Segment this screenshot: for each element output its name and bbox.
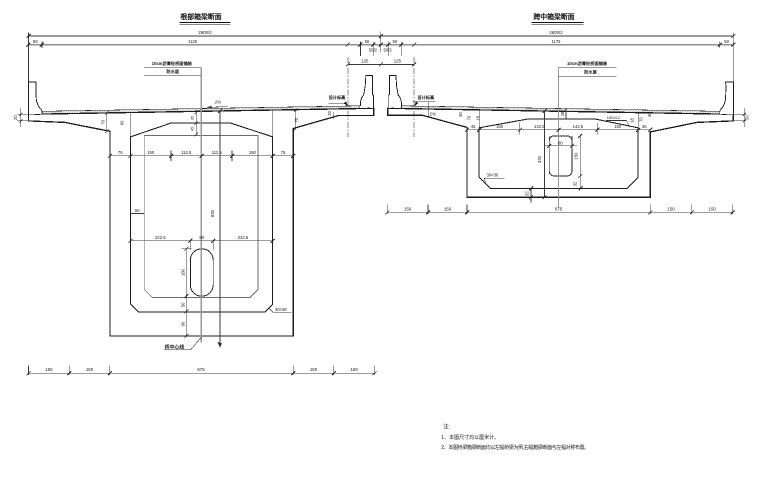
svg-text:80: 80 xyxy=(199,235,204,240)
total height dim 830 xyxy=(219,111,221,348)
dim texts top row xyxy=(33,30,730,63)
inner barrier of right deck xyxy=(388,75,401,108)
svg-text:125: 125 xyxy=(361,59,369,64)
svg-text:2600/2: 2600/2 xyxy=(549,30,563,35)
svg-text:2600/2: 2600/2 xyxy=(198,30,212,35)
svg-text:150: 150 xyxy=(310,367,318,372)
svg-text:35: 35 xyxy=(191,116,195,120)
edge slab dim 20 right xyxy=(733,108,746,127)
web dim line 75/150/112.5 xyxy=(110,151,293,162)
svg-text:75: 75 xyxy=(281,150,286,155)
bridge centerline (grey) xyxy=(200,68,202,343)
bottom dim line 150/150/675/150/150 xyxy=(387,205,732,215)
svg-text:45: 45 xyxy=(642,124,647,129)
svg-text:10cm沥青砼桥面铺装: 10cm沥青砼桥面铺装 xyxy=(152,60,193,67)
pavement layer label 10cm xyxy=(567,60,608,76)
vertical dim chain 180/50/90 xyxy=(181,249,191,336)
median dash-dot centerline left xyxy=(347,57,349,137)
svg-text:125: 125 xyxy=(394,59,402,64)
svg-text:注:: 注: xyxy=(443,423,450,431)
svg-text:150/4.2: 150/4.2 xyxy=(607,115,621,120)
inner web face extension lines xyxy=(129,113,131,137)
svg-text:设计标高: 设计标高 xyxy=(417,94,434,101)
svg-text:防水层: 防水层 xyxy=(584,69,597,76)
50 web taper dim xyxy=(130,213,144,215)
extension line right end xyxy=(732,33,734,83)
right outer barrier xyxy=(720,82,734,114)
svg-text:150: 150 xyxy=(496,124,504,129)
svg-text:60: 60 xyxy=(119,120,124,125)
svg-text:150: 150 xyxy=(667,206,675,211)
svg-text:30: 30 xyxy=(458,112,463,117)
svg-text:142.5: 142.5 xyxy=(573,124,584,129)
svg-text:50: 50 xyxy=(33,39,38,44)
svg-text:150: 150 xyxy=(614,124,622,129)
girder outer outline xyxy=(29,108,374,336)
edge slab dim 20 xyxy=(17,108,29,127)
svg-text:10cm沥青砼桥面铺装: 10cm沥青砼桥面铺装 xyxy=(567,60,608,67)
floor slab dim 32 xyxy=(530,188,532,202)
inner barrier of left deck xyxy=(360,75,373,108)
bottom dim line 150/150/675/150/150 xyxy=(29,366,375,376)
svg-text:675: 675 xyxy=(555,206,563,211)
extension line left end xyxy=(28,33,30,83)
svg-text:150: 150 xyxy=(351,367,359,372)
svg-text:45: 45 xyxy=(191,127,195,131)
mid dim 222.5/80/222.5 xyxy=(130,241,272,250)
svg-text:1175: 1175 xyxy=(551,39,561,44)
svg-text:150: 150 xyxy=(86,367,94,372)
svg-text:18: 18 xyxy=(475,115,480,120)
svg-text:30×30: 30×30 xyxy=(275,307,287,312)
small slab dim at centerline 28 xyxy=(565,108,567,119)
svg-text:75: 75 xyxy=(118,150,123,155)
access hole xyxy=(549,136,572,176)
hole width dim 80 xyxy=(544,136,577,150)
svg-text:防水层: 防水层 xyxy=(167,68,180,75)
svg-text:150: 150 xyxy=(444,206,452,211)
inner web face extension lines xyxy=(478,110,480,128)
bridge centerline (grey) xyxy=(558,68,560,208)
pavement hatch band xyxy=(402,106,720,114)
svg-text:150: 150 xyxy=(147,150,155,155)
hole height dim 150 xyxy=(579,136,581,176)
hole to floor dim 32 xyxy=(579,176,581,188)
web dim line 45/150/142.5 xyxy=(467,123,650,135)
top slab small dims at centerline xyxy=(195,113,197,135)
svg-text:90: 90 xyxy=(181,321,186,326)
svg-text:70: 70 xyxy=(467,115,472,120)
box inner contour B (taper line) xyxy=(144,136,258,298)
svg-text:30: 30 xyxy=(647,112,652,117)
dim line 50/1125/50 row (grey heavy) xyxy=(29,44,734,46)
svg-text:112.5: 112.5 xyxy=(181,150,192,155)
box inner contour A (pier face) xyxy=(130,123,272,312)
svg-text:1、本图尺寸均以厘米计。: 1、本图尺寸均以厘米计。 xyxy=(441,434,499,441)
left outer barrier xyxy=(29,82,43,114)
svg-text:20: 20 xyxy=(13,115,18,120)
svg-text:150: 150 xyxy=(404,206,412,211)
svg-text:150: 150 xyxy=(574,152,579,160)
svg-text:设计标高: 设计标高 xyxy=(329,94,346,101)
pavement hatch band xyxy=(42,106,360,114)
svg-text:1125: 1125 xyxy=(188,39,198,44)
svg-text:18: 18 xyxy=(630,118,635,123)
pavement layer label 10cm xyxy=(152,60,193,75)
wing tip dim 30 right xyxy=(333,112,335,119)
dim line 2600/2 + 2600/2 xyxy=(29,35,734,37)
svg-text:32: 32 xyxy=(525,191,530,196)
svg-text:222.5: 222.5 xyxy=(238,235,249,240)
svg-text:28: 28 xyxy=(560,111,565,116)
svg-text:112.5: 112.5 xyxy=(212,150,223,155)
girder outer outline xyxy=(388,108,734,197)
wing root dim 70 right xyxy=(295,110,297,129)
access hole oval xyxy=(190,249,213,296)
svg-text:150: 150 xyxy=(709,206,717,211)
svg-text:20: 20 xyxy=(745,115,750,120)
svg-text:70: 70 xyxy=(101,119,106,124)
small extension ticks row2 xyxy=(41,42,43,49)
svg-text:150: 150 xyxy=(249,150,257,155)
extension line road middle xyxy=(380,32,382,53)
svg-text:50: 50 xyxy=(181,302,186,307)
svg-text:675: 675 xyxy=(197,367,205,372)
svg-text:830: 830 xyxy=(210,209,215,217)
svg-text:32: 32 xyxy=(572,181,577,186)
svg-text:2、本图桥梁箱梁断面均以左幅桥梁为例,右幅箱梁断面与左幅对称: 2、本图桥梁箱梁断面均以左幅桥梁为例,右幅箱梁断面与左幅对称布置。 xyxy=(441,444,589,451)
svg-text:70: 70 xyxy=(638,117,643,122)
svg-text:桥中心线: 桥中心线 xyxy=(165,343,184,350)
dim line 125/125 between centerlines xyxy=(348,63,414,65)
ticks on dim line 2 xyxy=(27,43,736,47)
2% slope symbol xyxy=(428,102,430,117)
svg-text:50/2: 50/2 xyxy=(369,48,378,53)
svg-text:142.5: 142.5 xyxy=(534,124,545,129)
svg-text:80: 80 xyxy=(558,140,563,145)
svg-text:45: 45 xyxy=(471,124,476,129)
svg-text:222.5: 222.5 xyxy=(155,235,166,240)
svg-text:50: 50 xyxy=(392,39,397,44)
svg-text:50/2: 50/2 xyxy=(384,48,393,53)
svg-text:2%: 2% xyxy=(214,99,221,104)
box inner contour xyxy=(479,119,638,189)
wing root dim 70 left xyxy=(106,113,108,131)
svg-text:根部箱梁断面: 根部箱梁断面 xyxy=(180,12,221,21)
svg-text:70: 70 xyxy=(294,117,299,122)
svg-text:50: 50 xyxy=(724,39,729,44)
svg-text:跨中箱梁断面: 跨中箱梁断面 xyxy=(533,12,574,21)
svg-text:150: 150 xyxy=(45,367,53,372)
median dash-dot centerline right xyxy=(413,57,415,137)
svg-text:50: 50 xyxy=(135,208,140,213)
svg-text:320: 320 xyxy=(537,155,542,163)
svg-text:50: 50 xyxy=(365,39,370,44)
svg-text:2%: 2% xyxy=(429,112,436,117)
svg-text:30: 30 xyxy=(327,110,332,115)
ticks on dim line 1 xyxy=(27,34,736,38)
svg-text:30×30: 30×30 xyxy=(487,173,499,178)
total height dim 320 xyxy=(544,111,546,197)
svg-text:180: 180 xyxy=(181,268,186,276)
